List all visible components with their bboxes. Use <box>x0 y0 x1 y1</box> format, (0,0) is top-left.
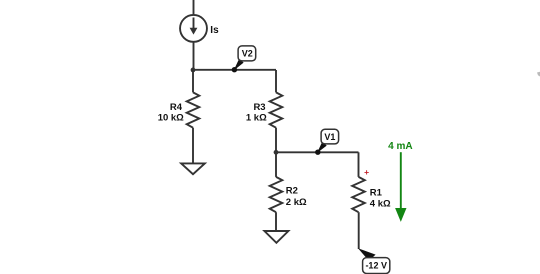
wire node V1 horizontal to R1 branch <box>276 151 359 153</box>
svg-text:V1: V1 <box>324 132 335 142</box>
probe V1 pointer wedge <box>317 142 327 153</box>
svg-text:-12 V: -12 V <box>365 260 387 270</box>
wire current source to node V2 <box>193 42 195 70</box>
svg-text:R2: R2 <box>286 186 298 197</box>
wire R4 to ground <box>192 128 194 164</box>
wire top feed into current source <box>193 0 195 14</box>
wire node V2 horizontal to R3 branch <box>193 69 276 71</box>
resistor R2 <box>270 177 283 212</box>
wire node V1 to R2 <box>275 152 277 177</box>
wire R1 to -12V source <box>358 212 360 249</box>
probe V2 attachment dot <box>232 67 237 72</box>
resistor R1 <box>352 177 365 212</box>
node V1 junction dot <box>274 150 279 155</box>
probe V1 label box <box>321 129 339 144</box>
-12V label box <box>363 258 390 274</box>
svg-text:4 kΩ: 4 kΩ <box>370 198 391 209</box>
svg-text:R3: R3 <box>253 102 265 113</box>
ground (left) <box>181 163 205 174</box>
svg-text:4 mA: 4 mA <box>388 141 412 152</box>
resistor R3 <box>270 92 283 127</box>
wire corner down to R1 <box>358 152 360 177</box>
svg-text:Is: Is <box>210 25 219 36</box>
svg-text:2 kΩ: 2 kΩ <box>286 197 307 208</box>
svg-text:+: + <box>364 167 369 177</box>
current annotation arrow <box>400 152 402 209</box>
node V2 junction dot <box>191 68 196 73</box>
probe V1 attachment dot <box>315 150 320 155</box>
svg-text:V2: V2 <box>242 49 253 59</box>
svg-text:R4: R4 <box>170 102 183 113</box>
wire node V2 to R4 <box>192 70 194 92</box>
svg-text:R1: R1 <box>370 187 383 198</box>
wire R3 to node V1 <box>275 128 277 153</box>
edge artifact mark <box>537 72 540 77</box>
probe V2 label box <box>238 46 256 61</box>
wire node V2 down-right corner to R3 <box>275 70 277 92</box>
wire R2 to ground <box>275 212 277 231</box>
ground (bottom) <box>264 231 288 243</box>
svg-text:1 kΩ: 1 kΩ <box>246 113 267 124</box>
probe V2 pointer wedge <box>234 59 244 71</box>
current source Is <box>180 15 207 42</box>
pointer wedge to -12V box <box>358 248 376 261</box>
svg-text:10 kΩ: 10 kΩ <box>158 113 184 124</box>
resistor R4 <box>187 92 200 127</box>
